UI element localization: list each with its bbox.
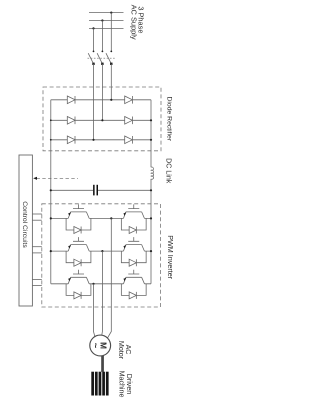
node L1 tap	[110, 12, 112, 14]
arrowhead feedback	[33, 177, 37, 180]
wire rectifier rail 2	[51, 119, 151, 121]
wire rectifier rail 1	[51, 99, 151, 101]
wire DC link left	[51, 189, 93, 191]
node output W	[110, 217, 112, 219]
wire Q6 freewheel loop	[121, 284, 146, 296]
node L2 tap	[101, 19, 103, 21]
wire positive DC bus upper	[150, 100, 152, 167]
node W rail1	[110, 99, 112, 101]
wire supply rail L3	[89, 27, 124, 29]
diode D9	[74, 259, 81, 266]
shaft	[101, 356, 104, 372]
node output U	[92, 283, 94, 285]
node U rail3	[92, 139, 94, 141]
capacitor C1 plate A	[93, 185, 95, 196]
svg-text:PWM Inverter: PWM Inverter	[166, 235, 175, 280]
node DC link neg	[50, 189, 52, 191]
wire Q2 freewheel loop	[121, 218, 146, 230]
transistor Q3	[68, 237, 89, 251]
diode D3	[67, 136, 75, 144]
wire S1 to rectifier	[93, 64, 95, 87]
node neg bus rail2	[50, 119, 52, 121]
transistor Q2	[123, 204, 144, 218]
wire gate pair row2 upper	[32, 246, 41, 248]
diode D12	[129, 292, 136, 299]
wire switch linkage (dashed)	[88, 57, 116, 59]
transistor Q5	[68, 270, 89, 284]
inductor DC link choke	[151, 167, 154, 179]
svg-text:DC Link: DC Link	[164, 158, 172, 184]
diode D11	[74, 292, 81, 299]
wire Q1 freewheel loop	[66, 218, 91, 230]
diode D7	[74, 227, 81, 234]
wire output W to motor	[107, 218, 111, 338]
wire gate pair row1 lower	[32, 219, 41, 221]
switch S1	[88, 51, 95, 66]
wire supply rail L1	[89, 12, 124, 14]
wire inverter rail 3	[51, 283, 151, 285]
wire Q4 freewheel loop	[121, 251, 146, 263]
svg-text:AC Supply: AC Supply	[129, 5, 138, 40]
node V rail2	[101, 119, 103, 121]
wire phase V to rail2	[101, 87, 103, 120]
wire gate pair row1 upper	[32, 213, 41, 215]
node pos bus row2	[150, 250, 152, 252]
transistor Q1	[68, 204, 89, 218]
wire S3 to rectifier	[110, 64, 112, 87]
wire phase U to rail3	[93, 87, 95, 140]
node neg bus rail3	[50, 139, 52, 141]
wire Q5 freewheel loop	[66, 284, 91, 296]
wire positive DC bus lower	[150, 179, 152, 284]
wire Q3 freewheel loop	[66, 251, 91, 263]
wire phase W to rail1	[110, 87, 112, 100]
wire drop phase U	[93, 28, 95, 51]
capacitor C1 plate B	[97, 185, 99, 196]
diode D10	[129, 259, 136, 266]
diode D8	[129, 227, 136, 234]
wire supply rail L2	[89, 20, 124, 22]
wire rectifier rail 3	[51, 139, 151, 141]
wire feedback (dashed)	[37, 177, 79, 179]
diode D4	[125, 96, 133, 104]
wire S2 to rectifier	[101, 64, 103, 87]
diode rectifier dashed box	[43, 87, 161, 151]
wire drop phase W	[110, 13, 112, 51]
svg-text:Control Circuits: Control Circuits	[21, 201, 28, 248]
node pos bus row1	[150, 217, 152, 219]
diode D2	[67, 117, 75, 125]
node DC link pos	[150, 189, 152, 191]
svg-text:Motor: Motor	[117, 341, 125, 360]
node pos bus rail2	[150, 119, 152, 121]
switch S3	[106, 51, 113, 66]
wire drop phase V	[101, 21, 103, 52]
diode D6	[125, 136, 133, 144]
diode D1	[67, 96, 75, 104]
node L3 tap	[92, 27, 94, 29]
driven machine hatched block	[91, 372, 108, 396]
wire inverter rail 1	[51, 217, 151, 219]
node neg bus row1	[50, 217, 52, 219]
wire inverter rail 2	[51, 250, 151, 252]
wire gate pair row2 lower	[32, 252, 41, 254]
transistor Q4	[123, 237, 144, 251]
control circuits box	[19, 155, 32, 306]
transistor Q6	[123, 270, 144, 284]
svg-text:Machine: Machine	[117, 371, 125, 398]
diode D5	[125, 117, 133, 125]
wire DC link right	[98, 189, 151, 191]
wire output V to motor	[101, 251, 104, 335]
wire gate pair row3 upper	[32, 278, 41, 280]
motor M1 circle	[90, 335, 111, 356]
switch S2	[97, 51, 104, 66]
node pos bus rail3	[150, 139, 152, 141]
wire negative DC bus	[50, 100, 52, 284]
wire output U to motor	[94, 284, 96, 337]
node output V	[101, 250, 103, 252]
node neg bus row2	[50, 250, 52, 252]
svg-text:~: ~	[90, 343, 101, 349]
PWM inverter dashed box	[42, 204, 161, 307]
wire gate pair row3 lower	[32, 285, 41, 287]
svg-text:Diode Rectifier: Diode Rectifier	[165, 97, 172, 142]
